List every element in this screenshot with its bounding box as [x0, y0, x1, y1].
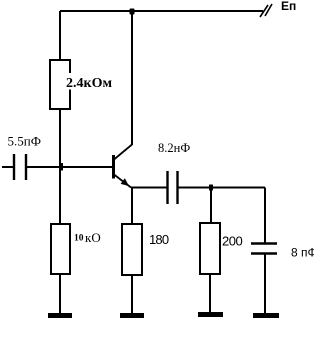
svg-text:2.4кОм: 2.4кОм: [66, 76, 112, 91]
svg-text:8 пФ: 8 пФ: [291, 246, 314, 260]
svg-text:180: 180: [149, 232, 169, 247]
svg-text:Еп: Еп: [281, 0, 296, 13]
svg-text:кО: кО: [85, 230, 101, 245]
svg-text:8.2нФ: 8.2нФ: [158, 141, 190, 155]
svg-text:10: 10: [74, 234, 84, 244]
svg-text:5.5пФ: 5.5пФ: [8, 134, 41, 149]
svg-text:200: 200: [222, 234, 242, 249]
